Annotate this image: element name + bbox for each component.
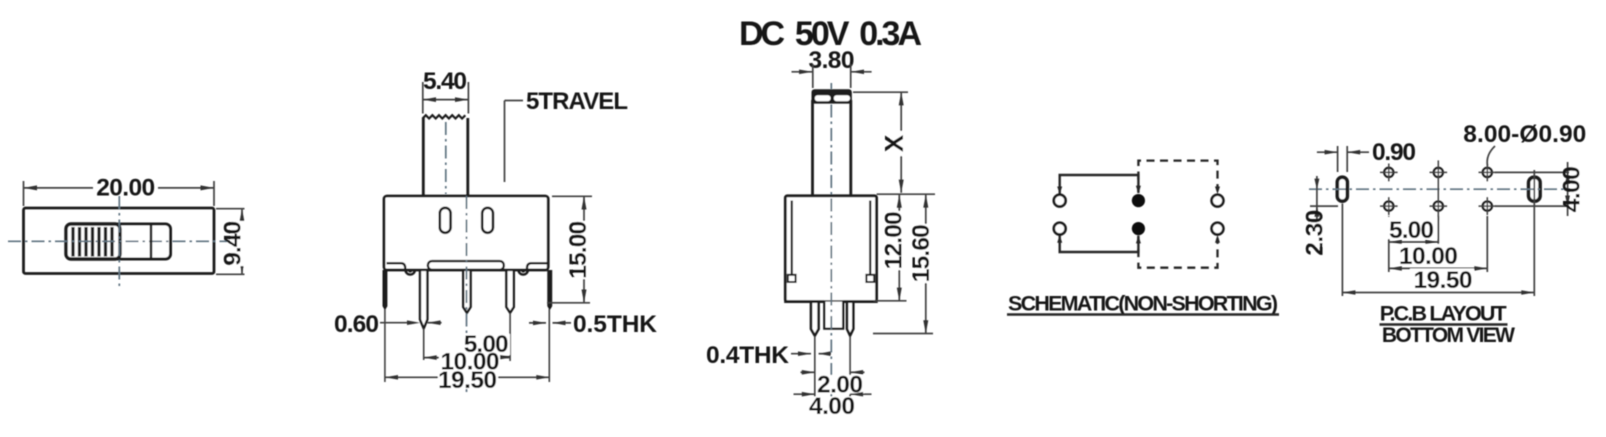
dim text 2.00 — [817, 375, 864, 394]
right step tab — [527, 263, 548, 270]
terminal 3 (right) — [506, 270, 513, 313]
dim 15.00 line — [583, 196, 585, 302]
dim 5.40 extension lines — [423, 82, 469, 114]
ext line top right (12/15.6) — [877, 193, 935, 195]
svg-text:X: X — [879, 134, 909, 152]
arrow onto right bottom terminal — [1215, 235, 1220, 243]
svg-text:P.C.B LAYOUT: P.C.B LAYOUT — [1380, 301, 1507, 325]
hole r2c3 — [1483, 202, 1492, 211]
terminal open left bottom — [1054, 223, 1066, 235]
stem cap (knob top) — [812, 89, 852, 103]
X dim arrows — [899, 92, 904, 105]
extension line from terminal 3 — [509, 313, 511, 361]
common terminal filled bottom — [1132, 222, 1145, 235]
slider divider line — [150, 224, 153, 259]
terminal 1 (left) — [420, 270, 427, 329]
wire solid bottom pole — [1060, 235, 1139, 252]
centerline horizontal — [8, 240, 227, 242]
cap slot right — [834, 95, 850, 101]
dim 15.00 ext lines — [547, 196, 592, 302]
dim 5.40 line — [423, 99, 469, 101]
body outline (front) — [384, 196, 548, 270]
dim 12.00 line — [898, 195, 900, 301]
hole r2c1 — [1384, 202, 1393, 211]
common terminal filled top — [1132, 194, 1145, 207]
dim 20.00 arrows — [24, 185, 38, 190]
hole crosshairs — [1380, 160, 1496, 220]
X dim ext line — [853, 91, 908, 93]
dim 2.00 arrows — [801, 371, 865, 373]
dim 5.00 line — [1389, 241, 1439, 243]
dim 19.50 line — [385, 376, 549, 378]
X dim line — [900, 92, 902, 193]
mounting slot left — [1337, 177, 1347, 201]
wire dashed top (alternate throw) — [1138, 161, 1217, 193]
dim text X (rotated) — [891, 131, 911, 156]
dim 0.5THK arrows — [529, 322, 571, 324]
left step tab — [387, 263, 406, 270]
body bottom edge — [784, 300, 878, 303]
svg-text:2.30: 2.30 — [1302, 210, 1329, 256]
inner tab foot right — [866, 275, 874, 282]
dim 20.00 line — [24, 187, 215, 189]
ext line mid right (12.00 bottom) — [874, 300, 907, 302]
stem centerline — [445, 122, 447, 194]
stem break zigzag — [423, 115, 466, 118]
terminal open left top — [1054, 195, 1066, 207]
dim 3.80 arrows — [792, 71, 872, 73]
dim 4.00 line — [1567, 162, 1569, 216]
svg-text:4.00: 4.00 — [809, 393, 855, 420]
body slot right — [482, 208, 493, 233]
dim 9.40 line — [241, 209, 243, 275]
terminal open right bottom — [1212, 223, 1224, 235]
dim 4.00 arrows — [794, 393, 872, 395]
stem centerline upper stub — [830, 83, 832, 89]
inner side tab line left — [791, 201, 793, 275]
svg-text:5.40: 5.40 — [423, 68, 467, 95]
dim text 15.00 (rotated) — [574, 221, 594, 279]
terminal 2 (middle) — [463, 270, 470, 313]
center bar — [428, 261, 504, 270]
bottom flange line — [386, 268, 548, 271]
svg-text:0.5THK: 0.5THK — [573, 311, 657, 338]
dim text 15.60 (rotated) — [916, 224, 937, 283]
left notch semicircle — [405, 270, 415, 275]
dim text 5.00 — [462, 334, 510, 355]
dim 3.80 ext lines — [813, 64, 851, 88]
slider knob (serrated) — [66, 224, 120, 259]
dim text 10.00 — [1396, 244, 1460, 265]
knob ribs — [73, 227, 112, 257]
dim 15.60 line — [925, 194, 927, 333]
extension line from terminal 1 — [423, 329, 425, 361]
centerline vertical — [118, 196, 120, 288]
leader to hole — [1487, 146, 1495, 166]
hole r1c1 — [1384, 168, 1393, 177]
stem centerline — [830, 105, 832, 401]
wire dashed bottom (alternate throw) — [1138, 236, 1217, 268]
5TRAVEL leader — [505, 101, 524, 183]
extension line right tab down — [548, 309, 550, 382]
dim 5.40 arrows — [423, 97, 436, 102]
hole r1c2 — [1434, 168, 1443, 177]
pin front (left) — [811, 302, 819, 336]
svg-text:19.50: 19.50 — [1414, 267, 1473, 294]
svg-text:SCHEMATIC(NON-SHORTING): SCHEMATIC(NON-SHORTING) — [1008, 292, 1278, 316]
pcb centerline horizontal — [1309, 188, 1584, 190]
hole r1c3 — [1483, 168, 1492, 177]
caption underline — [1007, 313, 1279, 315]
pin back (right) — [847, 302, 853, 336]
dim 0.60 arrows — [380, 322, 442, 324]
arrow onto left bottom terminal — [1057, 235, 1062, 243]
dim 0.90 arrows — [1317, 151, 1369, 153]
svg-text:0.60: 0.60 — [334, 311, 379, 338]
body outline (side) — [785, 196, 876, 302]
center stub — [824, 302, 843, 329]
cap slot left — [815, 95, 831, 101]
arrow onto common bottom terminal — [1136, 236, 1141, 244]
dim 4.00 ext lines — [1495, 172, 1569, 206]
arrow onto common top terminal — [1136, 186, 1141, 194]
switch body outline (top view) — [24, 208, 215, 274]
dim 10.00 line — [424, 357, 510, 359]
svg-text:20.00: 20.00 — [96, 174, 155, 201]
mounting slot right — [1529, 177, 1541, 201]
dim text 19.50 — [1410, 269, 1474, 290]
dim 9.40 extension lines — [216, 209, 245, 275]
dim 2.30 arrows — [1314, 179, 1319, 190]
svg-text:5.00: 5.00 — [1389, 217, 1434, 244]
svg-text:5TRAVEL: 5TRAVEL — [526, 88, 628, 115]
extension line left tab down — [384, 309, 386, 382]
ext lines below holes — [1342, 170, 1534, 296]
dim text 12.00 (rotated) — [889, 211, 910, 270]
arrow onto left top terminal — [1057, 187, 1062, 195]
stem sides — [423, 118, 468, 196]
right notch semicircle — [518, 270, 528, 275]
svg-text:3.80: 3.80 — [809, 47, 855, 74]
left notch dot — [408, 269, 412, 273]
dim text 2.30 (rotated) — [1310, 220, 1330, 247]
dim 2.30 ext line — [1310, 205, 1338, 207]
dim text 10.00 — [439, 352, 500, 371]
dim text 5.00 — [1386, 217, 1437, 239]
right side mounting tab — [548, 270, 552, 309]
svg-text:BOTTOM VIEW: BOTTOM VIEW — [1382, 324, 1515, 347]
svg-text:8.00-Ø0.90: 8.00-Ø0.90 — [1463, 121, 1586, 148]
svg-text:15.60: 15.60 — [908, 224, 935, 282]
dim text 19.50 — [438, 371, 498, 389]
inner side tab line right — [869, 201, 871, 275]
dim 15.00 arrows — [582, 196, 587, 209]
slider opening — [66, 224, 171, 259]
wire solid top pole — [1060, 175, 1139, 194]
caption underline — [1380, 323, 1508, 325]
svg-text:12.00: 12.00 — [881, 211, 908, 269]
svg-text:0.4THK: 0.4THK — [706, 342, 789, 369]
body slot left — [440, 208, 451, 233]
body centerline vertical — [466, 196, 468, 392]
dim 2.30 line — [1316, 176, 1318, 219]
dim 0.4THK arrows — [791, 353, 831, 355]
dim text 4.00 (rotated) — [1571, 167, 1590, 212]
dim text 9.40 (rotated) — [231, 221, 249, 266]
arrow onto right top terminal — [1215, 187, 1220, 195]
dim 10.00 line — [1389, 267, 1488, 269]
terminal open right top — [1212, 195, 1224, 207]
hole r2c2 — [1434, 202, 1443, 211]
dim 5.00 line — [467, 356, 510, 358]
svg-text:10.00: 10.00 — [1399, 243, 1458, 270]
left side mounting tab — [383, 270, 387, 309]
svg-text:15.00: 15.00 — [565, 221, 592, 279]
dim 20.00 extension lines — [24, 181, 215, 206]
svg-text:19.50: 19.50 — [438, 367, 497, 394]
dim 4.00 arrows — [1565, 172, 1570, 183]
dim 9.40 arrows — [240, 209, 245, 222]
ext line bottom right (15.60 bottom) — [873, 333, 933, 335]
dim text 4.00 — [809, 397, 856, 416]
pin extension lines — [815, 336, 850, 397]
stem sides — [813, 100, 851, 196]
dim 19.50 line — [1342, 292, 1534, 294]
svg-text:0.90: 0.90 — [1372, 139, 1416, 166]
right notch dot — [521, 269, 525, 273]
svg-text:9.40: 9.40 — [220, 221, 247, 266]
svg-text:4.00: 4.00 — [1559, 166, 1586, 212]
inner tab foot left — [788, 275, 796, 282]
dim 0.90 ext lines — [1338, 146, 1348, 172]
